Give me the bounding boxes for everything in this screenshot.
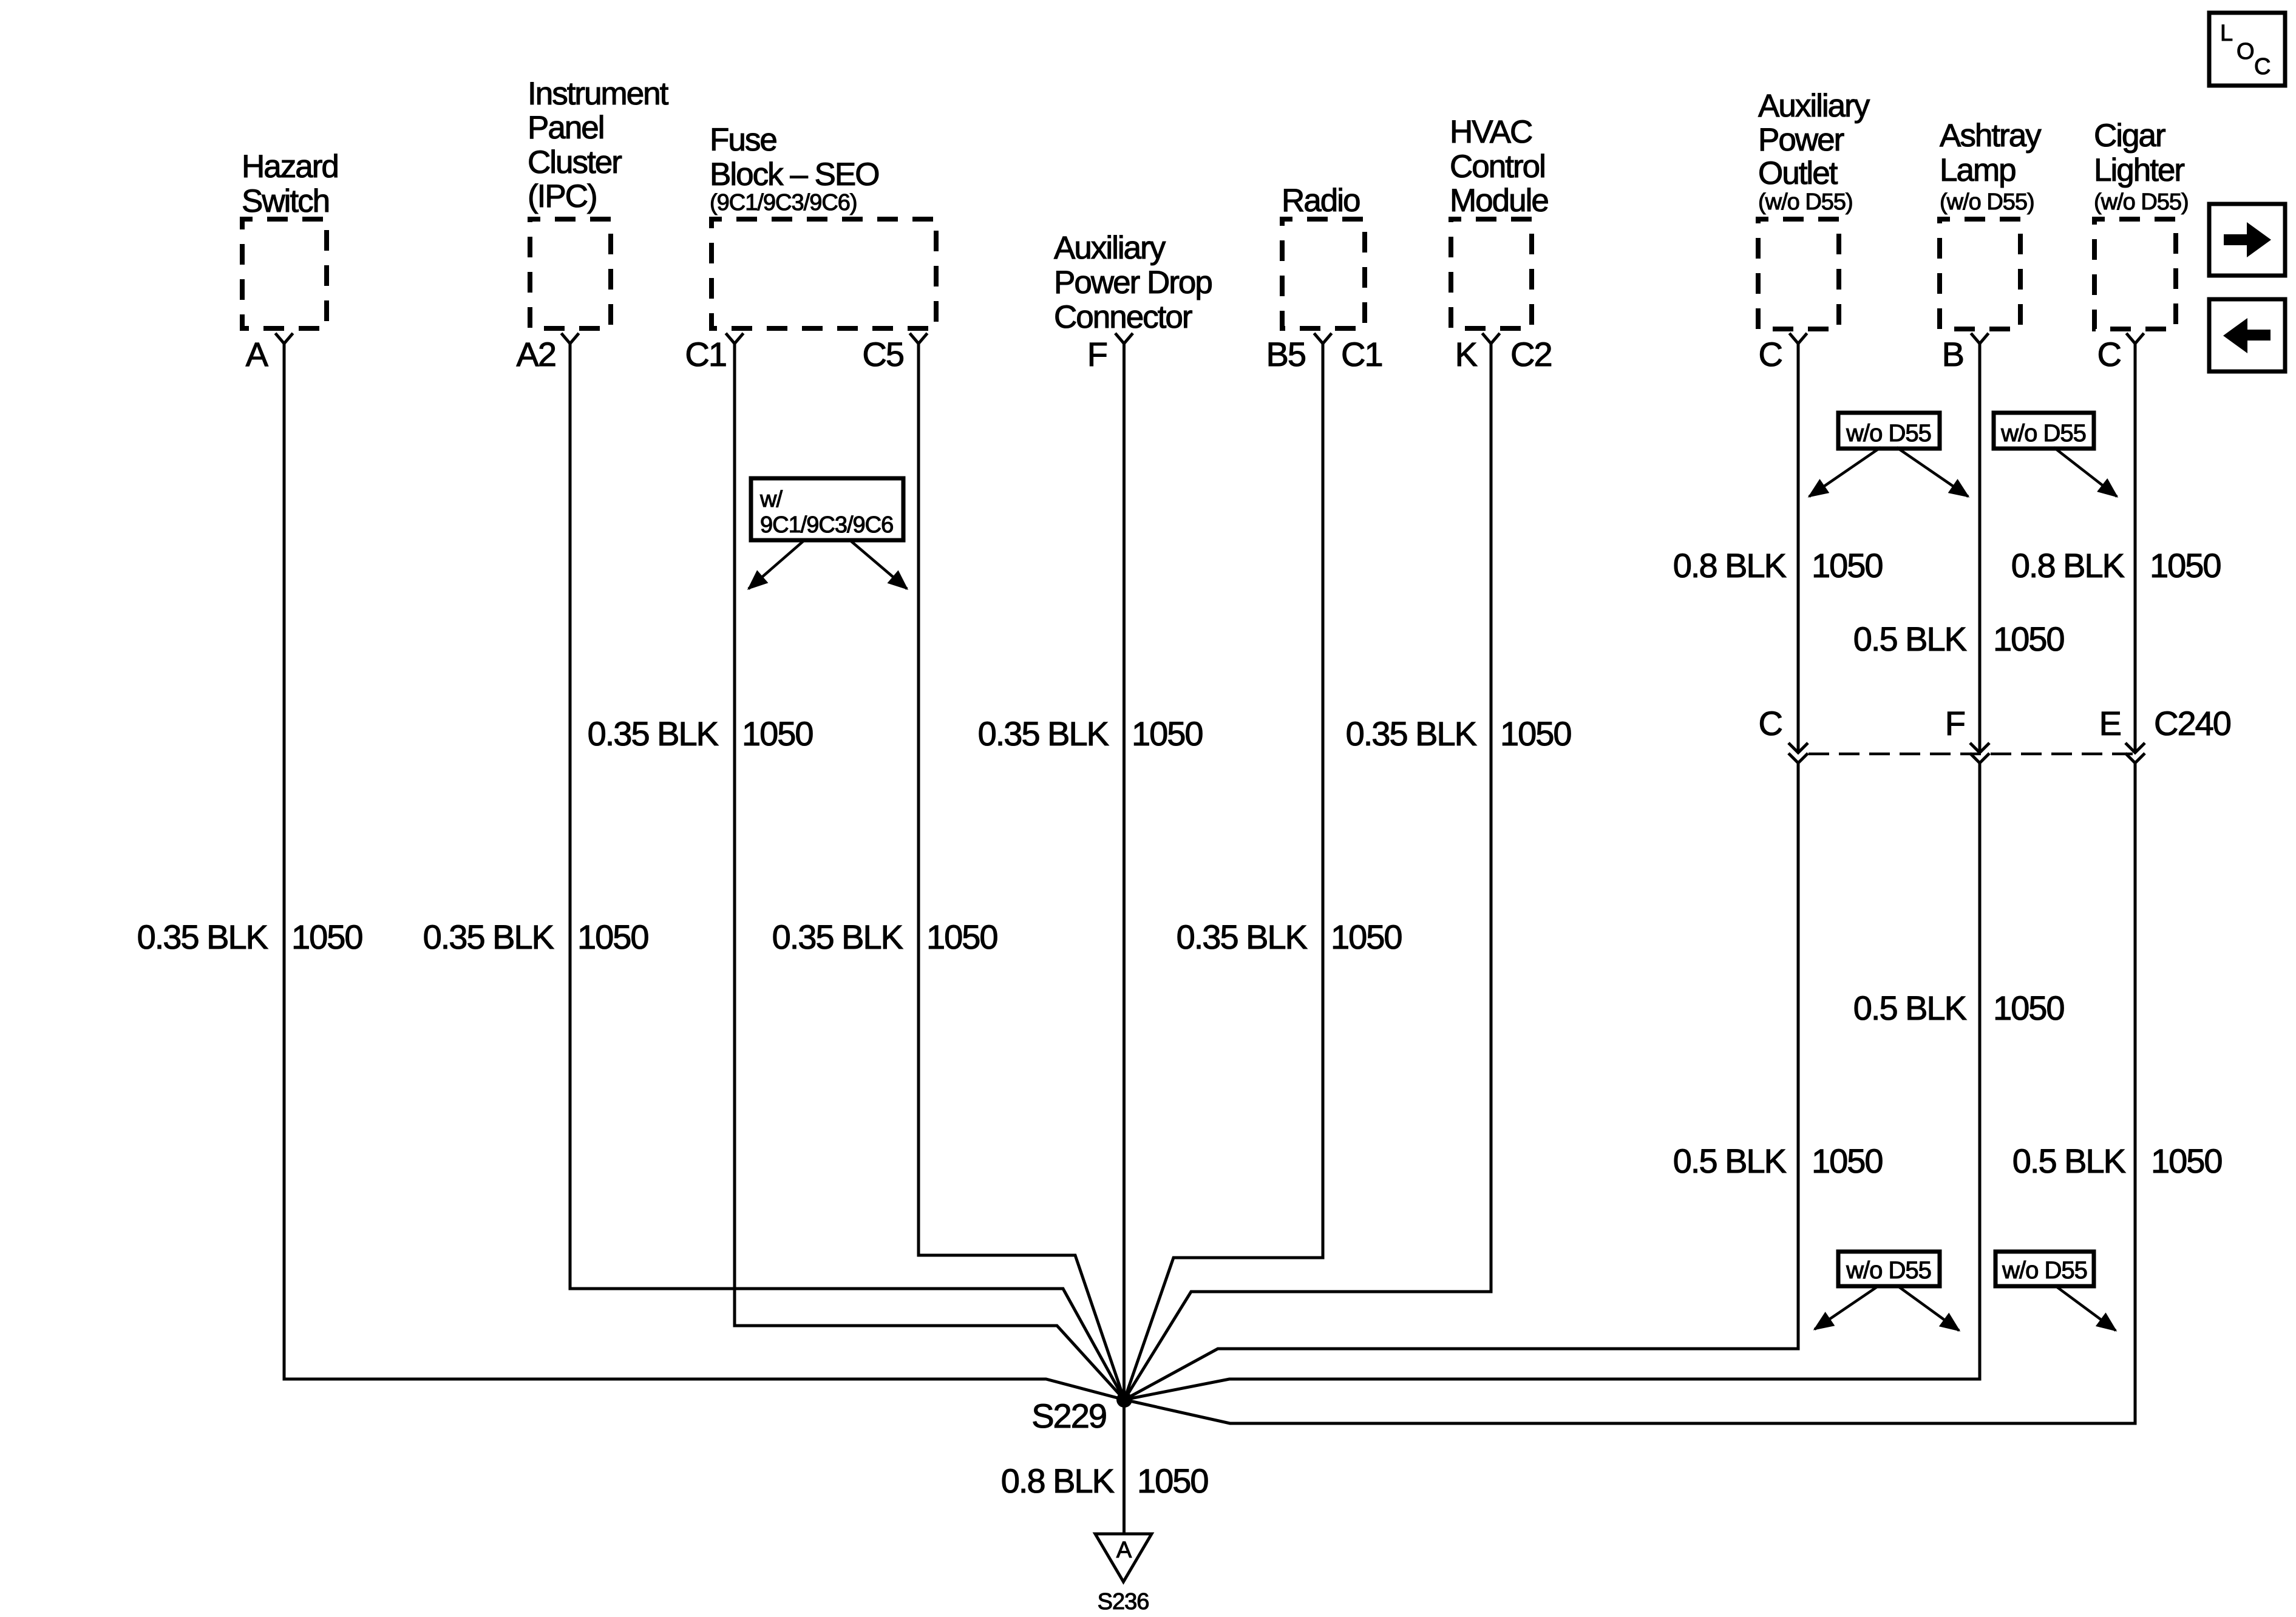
callout box: w/o D55 (lower, aux/ashtray) [1838,1252,1940,1286]
svg-text:S236: S236 [1098,1589,1149,1615]
connector box: Hazard Switch [242,149,338,328]
wire: Fuse Block C1 to S229 [735,344,1124,1400]
wire: APDC F to S229 [1123,344,1126,1400]
connector box: Radio [1282,183,1365,328]
callout box: w/ 9C1/9C3/9C6 [751,478,903,540]
svg-text:0.35 BLK: 0.35 BLK [772,918,903,956]
pin fork: Radio B5 C1 [1314,333,1332,344]
svg-text:Auxiliary: Auxiliary [1054,230,1166,266]
svg-text:1050: 1050 [577,918,648,956]
wire: Hazard Switch A to S229 [284,344,1124,1400]
svg-text:Hazard: Hazard [242,149,338,185]
svg-text:(9C1/9C3/9C6): (9C1/9C3/9C6) [710,190,857,215]
callout arrow to cigar wire (lower) [2055,1286,2116,1331]
svg-text:0.35 BLK: 0.35 BLK [1346,714,1477,753]
svg-text:C240: C240 [2154,704,2230,742]
C240 chevrons ashtray wire [1970,743,1989,763]
svg-text:C5: C5 [862,335,903,373]
svg-text:F: F [1945,704,1965,742]
svg-text:Lamp: Lamp [1940,152,2016,188]
pin fork: Fuse Block C1 [726,333,744,344]
svg-text:Panel: Panel [528,110,604,146]
svg-text:Connector: Connector [1054,299,1192,335]
callout arrow to aux wire (lower) [1815,1286,1879,1329]
svg-text:Power Drop: Power Drop [1054,265,1212,300]
svg-text:A: A [1116,1537,1132,1563]
pin fork: APDC F [1115,333,1133,344]
svg-text:C2: C2 [1510,335,1552,373]
callout box: w/o D55 (upper, cigar) [1994,413,2094,449]
connector box: Fuse Block - SEO [710,122,936,328]
svg-text:B5: B5 [1266,335,1306,373]
svg-text:0.8 BLK: 0.8 BLK [2011,546,2125,585]
LOC legend box [2209,13,2285,86]
svg-text:O: O [2237,39,2254,64]
svg-text:0.35 BLK: 0.35 BLK [588,714,719,753]
wire: Aux Power Outlet lower to S229 [1124,764,1798,1400]
svg-text:1050: 1050 [1331,918,1402,956]
svg-text:Instrument: Instrument [528,76,669,112]
svg-text:w/o D55: w/o D55 [2002,1257,2087,1284]
svg-text:1050: 1050 [291,918,362,956]
callout arrow to ashtray wire (lower) [1897,1286,1959,1331]
svg-text:0.35 BLK: 0.35 BLK [137,918,268,956]
legend box: arrow right [2209,204,2285,276]
pin fork: Cigar Lighter C [2127,333,2144,344]
svg-text:9C1/9C3/9C6: 9C1/9C3/9C6 [760,512,893,538]
svg-text:0.35 BLK: 0.35 BLK [978,714,1109,753]
svg-text:Lighter: Lighter [2094,152,2184,188]
svg-text:(IPC): (IPC) [528,178,597,214]
svg-text:C1: C1 [685,335,726,373]
svg-text:1050: 1050 [1993,620,2064,658]
connector box: Instrument Panel Cluster (IPC) [528,76,669,328]
callout box: w/o D55 (upper, aux/ashtray) [1838,413,1940,449]
svg-text:(w/o D55): (w/o D55) [1758,189,1853,215]
svg-text:0.35 BLK: 0.35 BLK [423,918,554,956]
connector box: HVAC Control Module [1450,114,1548,328]
callout arrow to C1 wire [749,540,804,589]
svg-text:Cigar: Cigar [2094,118,2165,154]
C240 chevrons cigar wire [2125,743,2145,763]
pin fork: Fuse Block C5 [910,333,928,344]
svg-text:w/o D55: w/o D55 [2000,420,2086,447]
svg-text:C: C [1759,335,1782,373]
svg-text:w/: w/ [759,487,783,512]
svg-text:Auxiliary: Auxiliary [1758,88,1870,124]
svg-text:0.8 BLK: 0.8 BLK [1673,546,1787,585]
legend box: arrow left [2209,299,2285,371]
svg-text:Control: Control [1450,149,1545,185]
svg-text:1050: 1050 [1993,989,2064,1027]
C240 chevrons aux wire [1788,743,1808,763]
C240 dashed connector line [1809,753,2135,756]
svg-text:1050: 1050 [1812,1142,1883,1180]
svg-text:C1: C1 [1341,335,1382,373]
wire: IPC A2 to S229 [570,344,1124,1400]
svg-text:S229: S229 [1031,1397,1106,1435]
svg-text:Cluster: Cluster [528,144,622,180]
svg-text:1050: 1050 [2151,1142,2222,1180]
svg-text:1050: 1050 [926,918,997,956]
svg-text:E: E [2099,704,2121,742]
callout arrow to ashtray wire [1897,447,1968,497]
svg-text:A: A [246,335,269,373]
wire: Cigar Lighter lower to S229 [1124,764,2135,1423]
svg-text:0.5 BLK: 0.5 BLK [2012,1142,2126,1180]
pin fork: HVAC K C2 [1483,333,1500,344]
connector box: Ashtray Lamp (w/o D55) [1940,118,2042,329]
svg-text:Block – SEO: Block – SEO [710,157,878,192]
svg-text:1050: 1050 [1132,714,1203,753]
wire: S229 to ground [1123,1400,1126,1534]
svg-text:HVAC: HVAC [1450,114,1532,150]
svg-text:L: L [2220,21,2232,46]
wire: Cigar Lighter upper [2134,344,2137,751]
svg-text:Module: Module [1450,183,1548,219]
wire: Radio to S229 [1124,344,1323,1400]
svg-text:Power: Power [1758,122,1844,158]
svg-text:1050: 1050 [1812,546,1883,585]
svg-text:(w/o D55): (w/o D55) [1940,189,2034,215]
pin fork: Aux Power Outlet C [1790,333,1807,344]
svg-text:Radio: Radio [1282,183,1360,219]
svg-text:C: C [1759,704,1782,742]
svg-text:B: B [1942,335,1963,373]
ground symbol triangle A [1095,1534,1152,1582]
callout arrow to aux wire [1809,447,1881,497]
svg-text:Switch: Switch [242,183,329,219]
svg-text:0.8 BLK: 0.8 BLK [1001,1462,1115,1500]
callout arrow to cigar wire [2054,447,2117,497]
svg-text:0.5 BLK: 0.5 BLK [1673,1142,1787,1180]
svg-text:1050: 1050 [2150,546,2221,585]
pin fork: Hazard A [276,333,293,344]
wire: Ashtray Lamp upper [1978,344,1982,751]
svg-text:1050: 1050 [742,714,813,753]
wire: Ashtray Lamp lower to S229 [1124,764,1980,1400]
pin fork: IPC A2 [562,333,579,344]
pin fork: Ashtray Lamp B [1971,333,1989,344]
wire: Fuse Block C5 to S229 [919,344,1124,1400]
svg-text:K: K [1455,335,1478,373]
svg-text:Fuse: Fuse [710,122,776,158]
svg-text:C: C [2097,335,2121,373]
svg-text:A2: A2 [517,335,556,373]
label: Auxiliary Power Drop Connector [1054,230,1212,335]
splice S229 junction dot [1116,1392,1132,1408]
callout box: w/o D55 (lower, cigar) [1995,1252,2094,1286]
svg-text:Ashtray: Ashtray [1940,118,2042,154]
svg-text:1050: 1050 [1137,1462,1208,1500]
svg-text:Outlet: Outlet [1758,155,1838,191]
svg-text:1050: 1050 [1500,714,1571,753]
wire: Aux Power Outlet upper [1797,344,1800,751]
connector box: Cigar Lighter (w/o D55) [2094,118,2189,329]
wire: HVAC to S229 [1124,344,1491,1400]
svg-text:F: F [1087,335,1107,373]
callout arrow to C5 wire [850,540,907,589]
svg-text:w/o D55: w/o D55 [1846,420,1931,447]
svg-text:0.5 BLK: 0.5 BLK [1853,620,1967,658]
connector box: Auxiliary Power Outlet (w/o D55) [1758,88,1870,329]
svg-text:(w/o D55): (w/o D55) [2094,189,2189,215]
svg-text:w/o D55: w/o D55 [1846,1257,1931,1284]
svg-text:C: C [2254,54,2270,80]
svg-text:0.5 BLK: 0.5 BLK [1853,989,1967,1027]
svg-text:0.35 BLK: 0.35 BLK [1177,918,1308,956]
